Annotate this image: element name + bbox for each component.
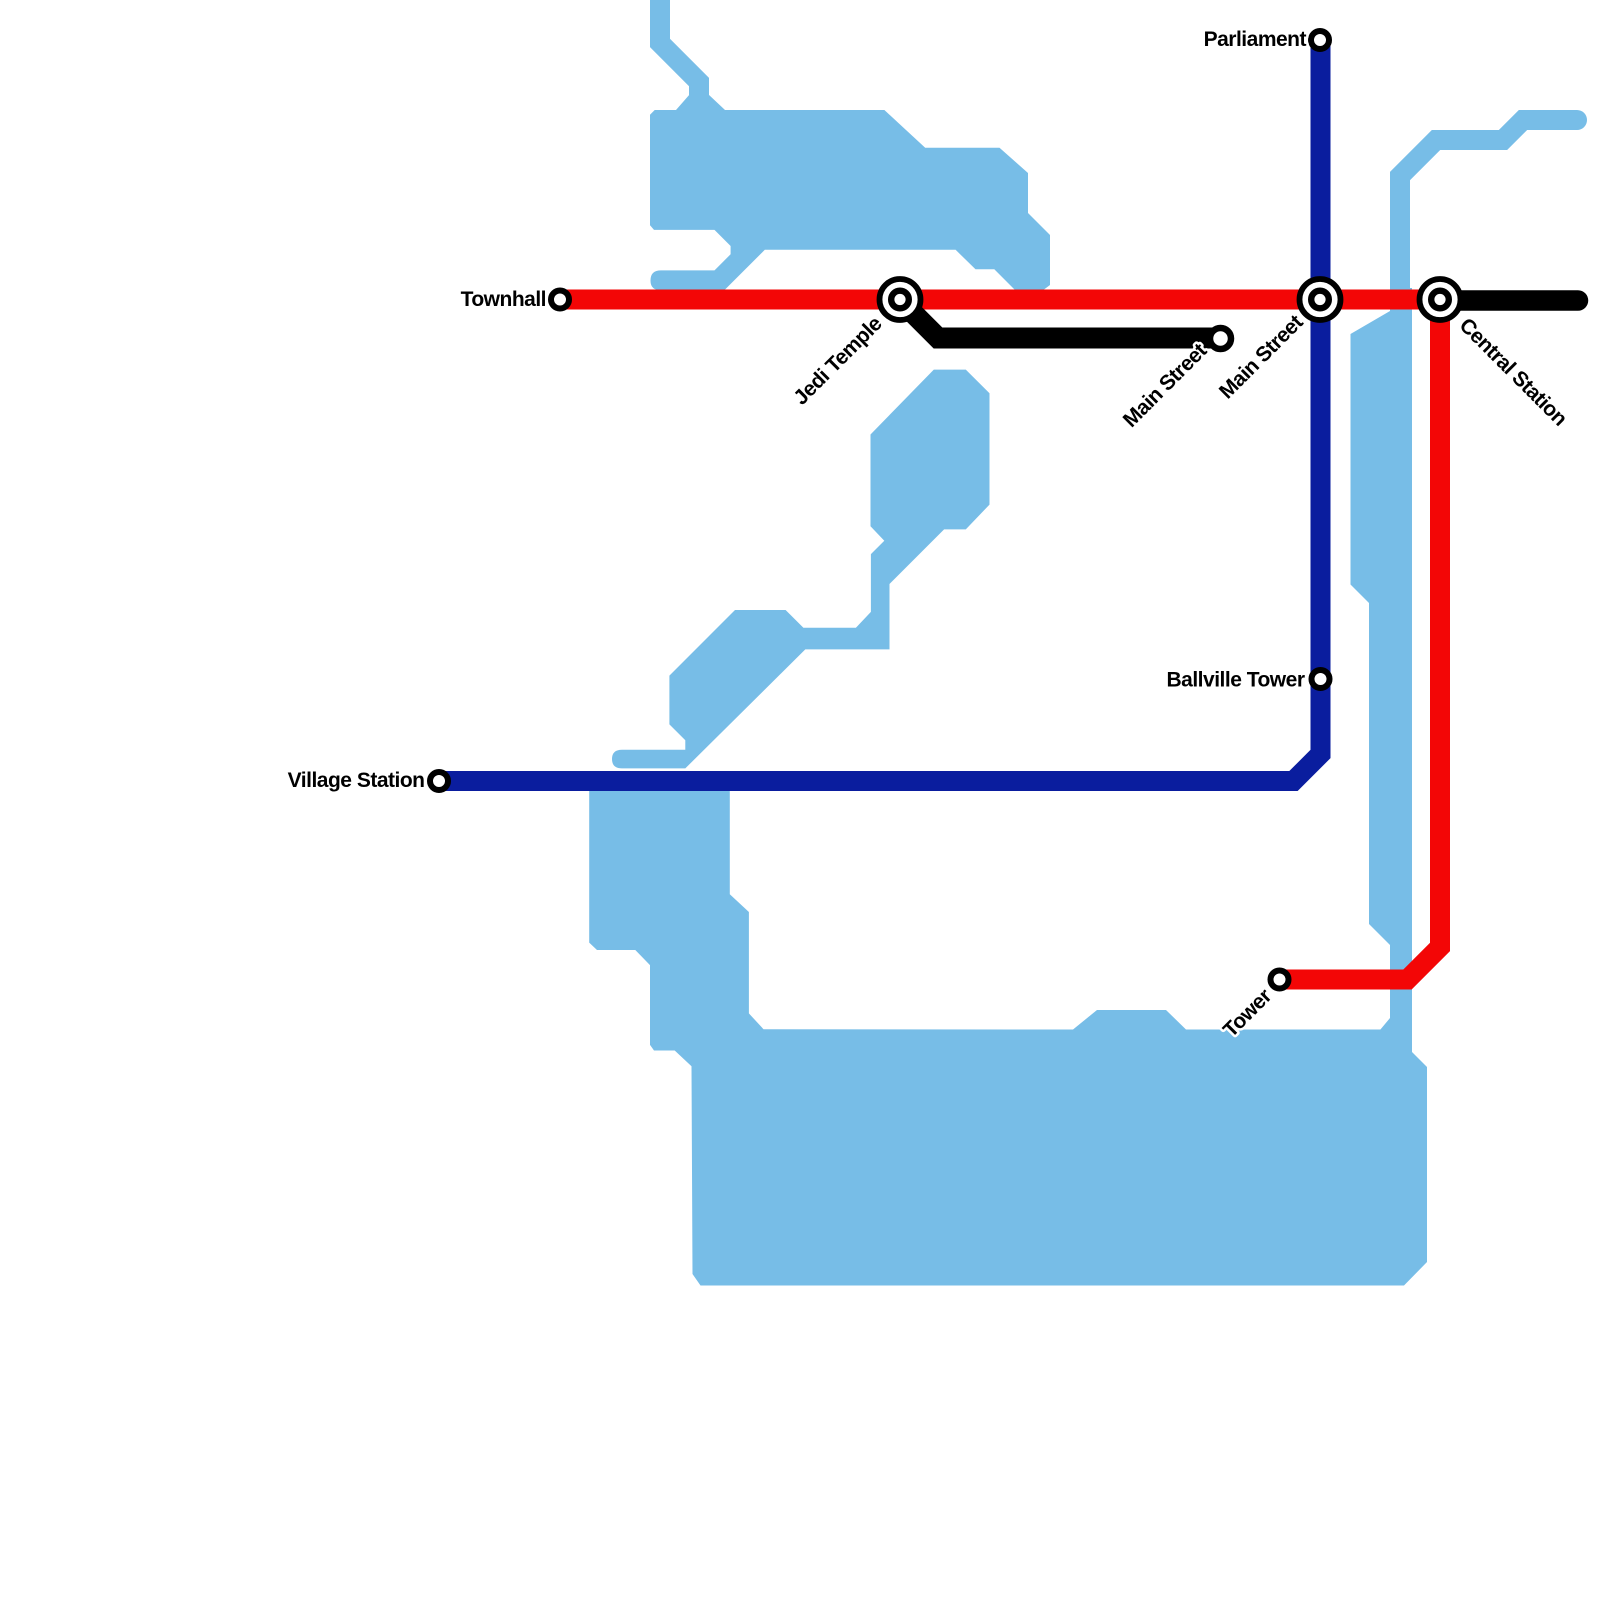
river right vertical — [1351, 288, 1428, 1080]
station Parliament — [1311, 31, 1329, 49]
line black Central-east — [1440, 290, 1578, 311]
line black Jedi-MainStreet — [900, 300, 1222, 339]
svg-text:Parliament: Parliament — [1204, 28, 1307, 51]
river right top branch — [1400, 120, 1577, 300]
interchange Jedi Temple — [880, 279, 921, 320]
svg-text:Townhall: Townhall — [461, 288, 546, 311]
station Village Station — [430, 772, 448, 790]
line red Townhall-Tower — [560, 300, 1440, 980]
svg-text:Village Station: Village Station — [288, 769, 425, 792]
station Townhall — [551, 291, 569, 309]
river top-left inlet — [660, 0, 699, 103]
station Ballville Tower — [1312, 670, 1330, 688]
lake bottom — [589, 771, 1427, 1286]
line blue Parliament-Village — [439, 40, 1321, 781]
river middle (Jedi blob system) — [612, 370, 990, 769]
station Tower — [1271, 971, 1289, 989]
interchange Main Street — [1300, 279, 1341, 320]
station Main Street small — [1210, 328, 1231, 349]
lake top-left — [650, 94, 1050, 290]
interchange Central Station — [1420, 279, 1461, 320]
svg-text:Ballville Tower: Ballville Tower — [1167, 669, 1305, 692]
